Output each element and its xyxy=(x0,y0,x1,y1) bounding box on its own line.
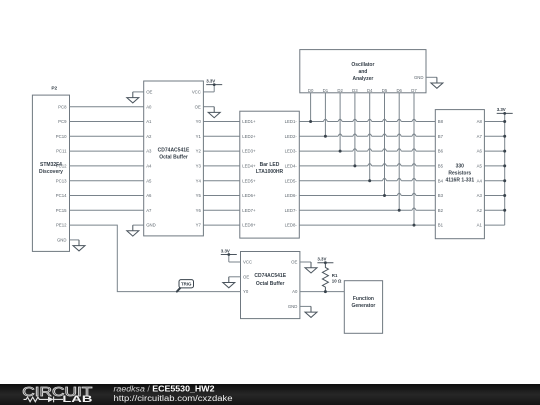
wire U2 OE-left xyxy=(229,276,241,278)
ground at U1 right OE xyxy=(208,107,220,118)
octal buffer U1 CD74AC541E xyxy=(144,81,204,236)
ground at U2 right OE xyxy=(305,262,317,273)
svg-text:LED2+: LED2+ xyxy=(242,134,256,139)
wire D6 down to LED7 net xyxy=(398,93,400,211)
wire A8 to 3.3V rail xyxy=(484,121,504,123)
wire U2 OE-right xyxy=(300,261,311,263)
CircuitLab logo xyxy=(22,385,92,405)
svg-text:Bar LED: Bar LED xyxy=(260,162,280,168)
svg-text:A5: A5 xyxy=(477,164,483,169)
svg-text:LED8+: LED8+ xyxy=(242,223,256,228)
svg-text:Y3: Y3 xyxy=(196,164,202,169)
svg-text:B2: B2 xyxy=(438,208,444,213)
junction rail/A7 xyxy=(503,135,506,138)
wire D5 down to LED6 net xyxy=(384,93,386,196)
junction D6/LED7 net xyxy=(398,209,401,212)
wire LED2- to B7 with crossover hops xyxy=(299,134,435,136)
3.3V supply at R1 xyxy=(317,257,333,265)
wire Y3 to LED4+ xyxy=(203,165,239,167)
svg-text:OE: OE xyxy=(243,274,249,279)
wire PC11 to A3 xyxy=(70,150,144,152)
svg-text:A7: A7 xyxy=(477,134,483,139)
junction D3/LED4 net xyxy=(353,164,356,167)
svg-text:LED2-: LED2- xyxy=(285,134,298,139)
svg-text:OE: OE xyxy=(195,104,201,109)
svg-text:LED4+: LED4+ xyxy=(242,164,256,169)
svg-text:A1: A1 xyxy=(146,119,152,124)
svg-text:10 Ω: 10 Ω xyxy=(332,278,342,283)
svg-text:B4: B4 xyxy=(438,178,444,183)
ground at U1 left OE xyxy=(127,92,139,103)
wire A3 to 3.3V rail xyxy=(484,195,504,197)
wire Y2 to LED3+ xyxy=(203,150,239,152)
svg-text:STM32F4: STM32F4 xyxy=(40,162,62,168)
wire LED8- to B1 with crossover hops xyxy=(299,224,435,226)
wire A6 to 3.3V rail xyxy=(484,150,504,152)
svg-text:OE: OE xyxy=(146,90,152,95)
svg-text:OE: OE xyxy=(291,260,297,265)
svg-text:PE12: PE12 xyxy=(56,223,67,228)
wire A7 to 3.3V rail xyxy=(484,135,504,137)
svg-text:PC8: PC8 xyxy=(58,104,67,109)
net label TRIG xyxy=(177,280,194,292)
junction rail/A2 xyxy=(503,209,506,212)
svg-text:330: 330 xyxy=(456,164,465,170)
svg-text:Analyzer: Analyzer xyxy=(352,76,373,82)
svg-text:PC15: PC15 xyxy=(56,208,67,213)
junction rail/A3 xyxy=(503,194,506,197)
svg-text:A0: A0 xyxy=(146,104,152,109)
svg-text:A2: A2 xyxy=(477,208,483,213)
svg-text:B6: B6 xyxy=(438,149,444,154)
junction D4/LED5 net xyxy=(368,179,371,182)
svg-text:VCC: VCC xyxy=(192,90,201,95)
junction rail/A8 xyxy=(503,120,506,123)
ground at U2 left OE xyxy=(223,277,235,288)
svg-text:A5: A5 xyxy=(146,178,152,183)
wire U2 GND xyxy=(300,305,311,307)
wire PC8 to A0 xyxy=(70,106,144,108)
svg-text:3.3V: 3.3V xyxy=(221,248,230,253)
3.3V supply at U1 VCC xyxy=(206,78,222,92)
svg-text:Y0: Y0 xyxy=(243,289,249,294)
svg-text:D3: D3 xyxy=(352,88,358,93)
svg-text:Resistors: Resistors xyxy=(448,170,471,176)
wire 3.3V rail xyxy=(504,113,506,225)
svg-text:GND: GND xyxy=(414,75,424,80)
wire A1 to 3.3V rail xyxy=(484,224,504,226)
svg-text:CD74AC541E: CD74AC541E xyxy=(158,148,190,154)
svg-text:http://circuitlab.com/cxzdake: http://circuitlab.com/cxzdake xyxy=(114,394,234,403)
ground at oscillator GND xyxy=(431,77,443,88)
wire LED6- to B3 with crossover hops xyxy=(299,193,435,195)
resistor network RN1 330 ohm 4116R 1-331 xyxy=(435,110,484,239)
octal buffer U2 CD74AC541E xyxy=(241,252,300,319)
function generator instrument xyxy=(344,281,382,334)
ground at P2 GND xyxy=(73,240,85,251)
svg-text:GND: GND xyxy=(288,304,298,309)
bar LED D1 LTA1000HR xyxy=(240,111,299,238)
svg-text:GND: GND xyxy=(57,238,67,243)
svg-text:A3: A3 xyxy=(477,193,483,198)
svg-text:Y5: Y5 xyxy=(196,193,202,198)
svg-text:LED3+: LED3+ xyxy=(242,149,256,154)
svg-text:Generator: Generator xyxy=(351,303,375,309)
wire LED1- to B8 with crossover hops xyxy=(299,119,435,121)
wire U2 A0 to function generator xyxy=(300,291,344,293)
svg-text:GND: GND xyxy=(146,223,156,228)
wire PC15 to A7 xyxy=(70,209,144,211)
3.3V supply at U2 VCC xyxy=(221,248,237,262)
svg-text:Discovery: Discovery xyxy=(39,169,63,175)
wire PC13 to A5 xyxy=(70,180,144,182)
oscillator and analyzer instrument xyxy=(300,50,426,93)
svg-text:Y2: Y2 xyxy=(196,149,202,154)
wire D0 down to LED1 net xyxy=(310,93,312,122)
resistor R1 10 ohm xyxy=(322,263,342,292)
svg-text:Y1: Y1 xyxy=(196,134,202,139)
svg-text:A6: A6 xyxy=(146,193,152,198)
wire D2 down to LED3 net xyxy=(339,93,341,151)
svg-text:3.3V: 3.3V xyxy=(206,78,215,83)
wire A4 to 3.3V rail xyxy=(484,180,504,182)
svg-text:PC11: PC11 xyxy=(56,149,67,154)
junction D0/LED1 net xyxy=(309,120,312,123)
wire LED5- to B4 with crossover hops xyxy=(299,178,435,180)
svg-text:PC13: PC13 xyxy=(56,178,67,183)
svg-text:CD74AC541E: CD74AC541E xyxy=(254,273,286,279)
svg-text:LED1-: LED1- xyxy=(285,119,298,124)
svg-text:PC10: PC10 xyxy=(56,134,67,139)
svg-text:LED5-: LED5- xyxy=(285,178,298,183)
wire U1 VCC xyxy=(203,91,214,93)
wire A5 to 3.3V rail xyxy=(484,165,504,167)
svg-text:B3: B3 xyxy=(438,193,444,198)
svg-text:LED4-: LED4- xyxy=(285,164,298,169)
svg-text:B7: B7 xyxy=(438,134,444,139)
svg-text:D7: D7 xyxy=(411,88,417,93)
svg-text:A4: A4 xyxy=(477,178,483,183)
svg-text:LAB: LAB xyxy=(62,394,92,405)
svg-text:LED6-: LED6- xyxy=(285,193,298,198)
3.3V supply at resistor rail xyxy=(497,107,513,115)
svg-text:LED1+: LED1+ xyxy=(242,119,256,124)
connector P2 (STM32F4 Discovery header) xyxy=(32,95,69,251)
svg-text:Y6: Y6 xyxy=(196,208,202,213)
svg-text:B5: B5 xyxy=(438,164,444,169)
wire U2 VCC xyxy=(229,261,241,263)
svg-text:LTA1000HR: LTA1000HR xyxy=(256,169,284,175)
svg-text:raedksa / ECE5530_HW2: raedksa / ECE5530_HW2 xyxy=(114,385,216,394)
svg-text:PC14: PC14 xyxy=(56,193,67,198)
wire D4 down to LED5 net xyxy=(369,93,371,181)
svg-text:LED8-: LED8- xyxy=(285,223,298,228)
svg-text:D4: D4 xyxy=(367,88,373,93)
svg-text:LED6+: LED6+ xyxy=(242,193,256,198)
footer bar xyxy=(0,384,540,405)
wire U1 OE-left xyxy=(133,91,144,93)
svg-text:3.3V: 3.3V xyxy=(497,107,506,112)
svg-text:P2: P2 xyxy=(51,85,57,91)
svg-text:LED7-: LED7- xyxy=(285,208,298,213)
svg-text:Function: Function xyxy=(353,296,374,302)
svg-text:A7: A7 xyxy=(146,208,152,213)
svg-text:Y7: Y7 xyxy=(196,223,202,228)
wire net TRIG: PE12 to U2 Y0 xyxy=(70,225,241,292)
wire PC12 to A4 xyxy=(70,165,144,167)
junction D5/LED6 net xyxy=(383,194,386,197)
svg-text:Octal Buffer: Octal Buffer xyxy=(256,281,285,287)
svg-text:A8: A8 xyxy=(477,119,483,124)
svg-text:Y4: Y4 xyxy=(196,178,202,183)
svg-text:D0: D0 xyxy=(308,88,314,93)
ground at U2 GND xyxy=(305,306,317,317)
wire U1 GND pin xyxy=(133,224,144,226)
svg-text:and: and xyxy=(358,69,367,75)
wire D7 down to LED8 net xyxy=(413,93,415,225)
svg-text:A1: A1 xyxy=(477,223,483,228)
wire Y5 to LED6+ xyxy=(203,195,239,197)
wire D1 down to LED2 net xyxy=(324,93,326,137)
svg-text:LED7+: LED7+ xyxy=(242,208,256,213)
svg-text:D5: D5 xyxy=(382,88,388,93)
svg-text:A4: A4 xyxy=(146,164,152,169)
junction D7/LED8 net xyxy=(413,224,416,227)
wire Y1 to LED2+ xyxy=(203,135,239,137)
wire PC14 to A6 xyxy=(70,195,144,197)
svg-text:LED5+: LED5+ xyxy=(242,178,256,183)
svg-text:Y0: Y0 xyxy=(196,119,202,124)
svg-text:B8: B8 xyxy=(438,119,444,124)
svg-text:A0: A0 xyxy=(292,289,298,294)
wire U1 OE-right xyxy=(203,106,214,108)
junction rail/A6 xyxy=(503,150,506,153)
wire A2 to 3.3V rail xyxy=(484,209,504,211)
svg-text:PC9: PC9 xyxy=(58,119,67,124)
svg-text:TRIG: TRIG xyxy=(181,282,192,287)
svg-text:D1: D1 xyxy=(323,88,329,93)
svg-text:4116R 1-331: 4116R 1-331 xyxy=(445,177,474,183)
wire LED7- to B2 with crossover hops xyxy=(299,208,435,210)
ground at U1 GND xyxy=(127,225,139,236)
wire oscillator GND xyxy=(426,76,437,78)
junction rail/A4 xyxy=(503,179,506,182)
wire PC9 to A1 xyxy=(70,121,144,123)
wire LED3- to B6 with crossover hops xyxy=(299,149,435,151)
wire Y6 to LED7+ xyxy=(203,209,239,211)
svg-text:Oscillator: Oscillator xyxy=(351,62,374,68)
junction R1/A0 net xyxy=(324,290,327,293)
svg-text:D6: D6 xyxy=(396,88,402,93)
svg-text:Octal Buffer: Octal Buffer xyxy=(159,155,188,161)
wire Y7 to LED8+ xyxy=(203,224,239,226)
svg-text:3.3V: 3.3V xyxy=(317,257,326,262)
svg-text:A2: A2 xyxy=(146,134,152,139)
svg-text:LED3-: LED3- xyxy=(285,149,298,154)
junction D2/LED3 net xyxy=(339,150,342,153)
svg-text:A6: A6 xyxy=(477,149,483,154)
wire LED4- to B5 with crossover hops xyxy=(299,164,435,166)
svg-text:B1: B1 xyxy=(438,223,444,228)
wire Y0 to LED1+ xyxy=(203,121,239,123)
wire PC10 to A2 xyxy=(70,135,144,137)
svg-text:VCC: VCC xyxy=(243,260,252,265)
wire D3 down to LED4 net xyxy=(354,93,356,166)
wire P2 GND xyxy=(70,239,80,241)
svg-text:A3: A3 xyxy=(146,149,152,154)
wire Y4 to LED5+ xyxy=(203,180,239,182)
junction rail/A5 xyxy=(503,164,506,167)
junction D1/LED2 net xyxy=(324,135,327,138)
svg-text:D2: D2 xyxy=(337,88,343,93)
